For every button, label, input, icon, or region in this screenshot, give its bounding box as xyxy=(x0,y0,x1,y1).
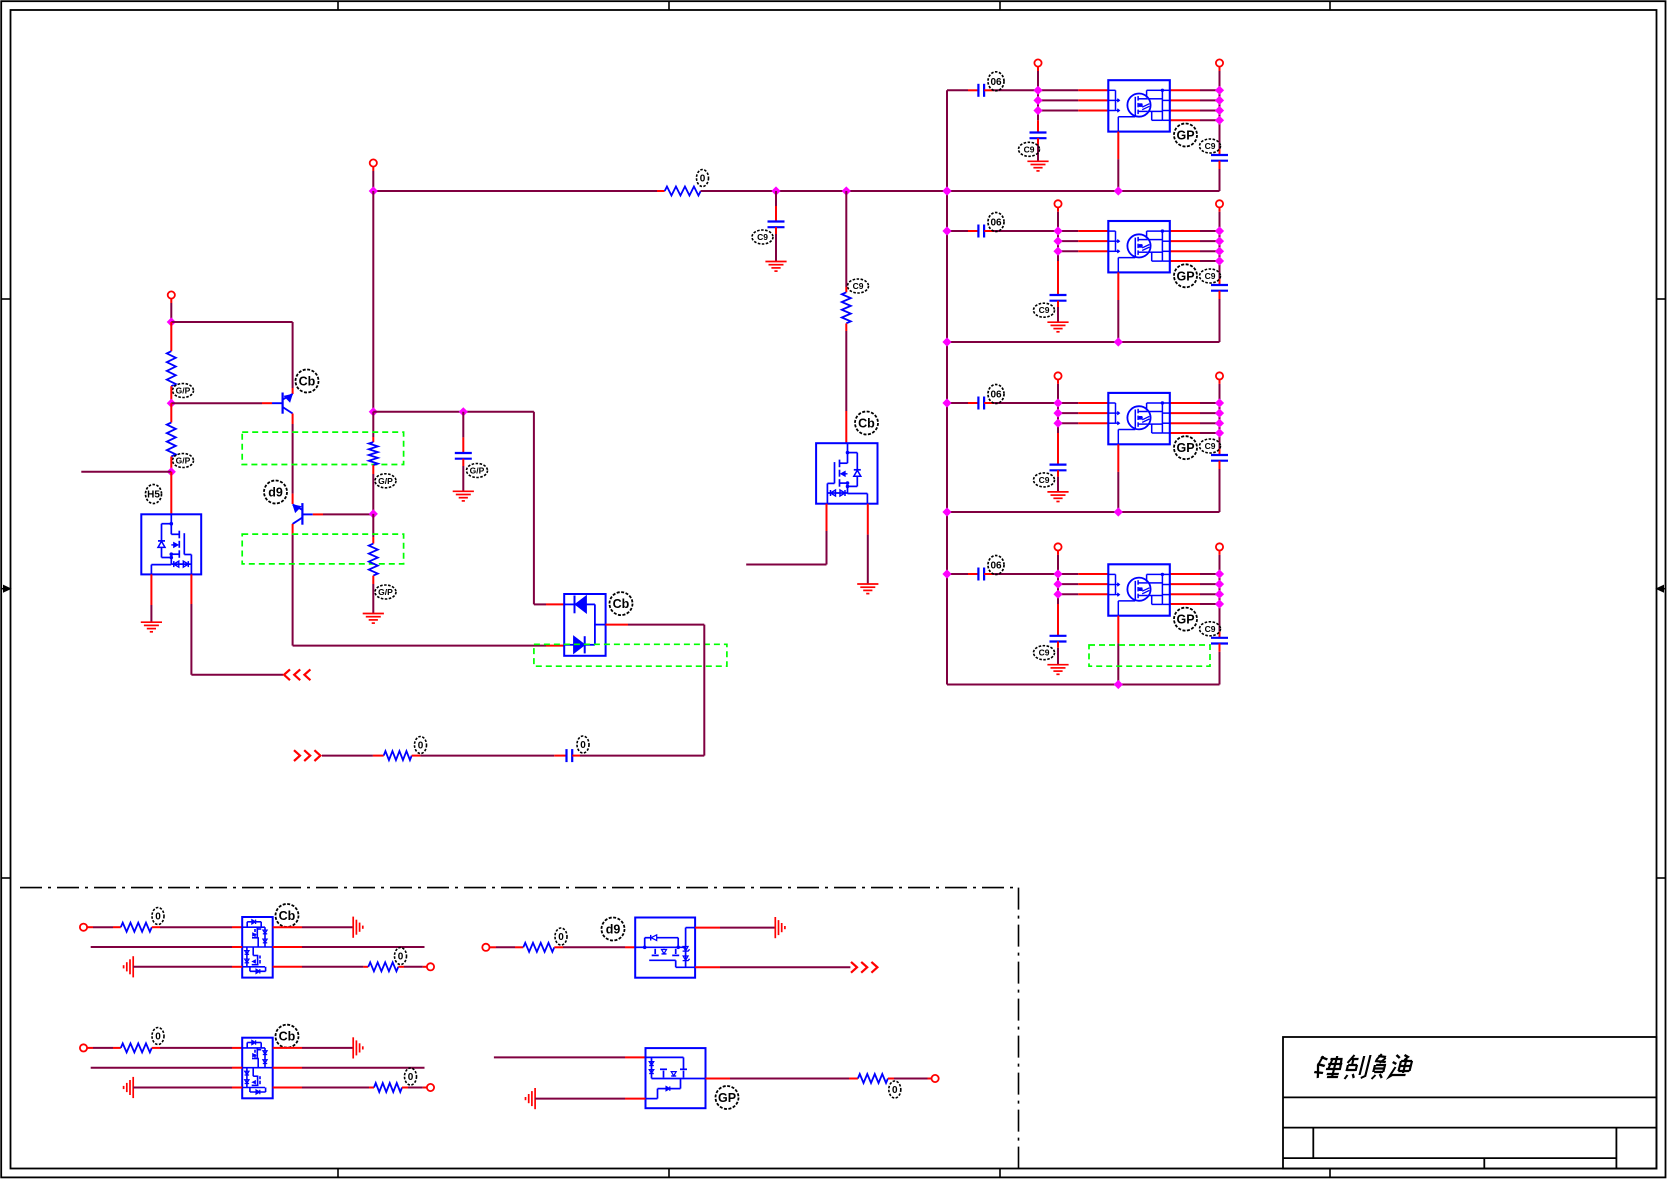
phase 2 wire box-to-right row4 xyxy=(1170,260,1200,262)
transistor Q2 (PNP mirrored) xyxy=(293,503,313,525)
block A input stub xyxy=(87,926,93,928)
phase 4 wire box-to-right row4 xyxy=(1170,603,1200,605)
wire R7 to mid MOSFET pack xyxy=(845,331,847,411)
phase 3 bottom bus wire xyxy=(947,511,1220,513)
svg-text:06: 06 xyxy=(990,77,1002,88)
svg-text:G/P: G/P xyxy=(378,476,393,486)
resistor R5 stub left xyxy=(373,755,384,757)
resistor R7 tap wire xyxy=(845,191,847,287)
phase 3 right junction row4 xyxy=(1215,428,1224,437)
phase 4 right junction row2 xyxy=(1215,580,1224,589)
phase 3 wire box-to-right row2 xyxy=(1170,412,1200,414)
phase 4 ground xyxy=(1047,664,1068,666)
feed terminal stub xyxy=(372,167,374,171)
power MOSFET pack Q1 (top-right block 1) xyxy=(1108,80,1170,131)
svg-text:GP: GP xyxy=(718,1091,736,1105)
block C resistor R13 label xyxy=(152,1028,164,1045)
phase 4 bypass capacitor C4b xyxy=(1050,635,1067,637)
wire top-left horizontal xyxy=(171,321,292,323)
block C resistor R14 stub xyxy=(369,1087,374,1089)
phase 3 wire col-to-box row1 xyxy=(1058,402,1078,404)
svg-text:06: 06 xyxy=(990,390,1002,401)
svg-text:C9: C9 xyxy=(1205,141,1216,151)
block D row3 wire xyxy=(535,1098,625,1100)
block D pack label GP xyxy=(716,1086,739,1109)
Q1 collector wire xyxy=(292,414,294,425)
resistor R3 bottom wire xyxy=(372,465,374,474)
Q5 source stub wire left xyxy=(746,564,826,566)
block C MOSFET pack Q13 (Cb) xyxy=(242,1038,273,1099)
svg-text:G/P: G/P xyxy=(176,386,191,396)
resistor R7 stub bottom xyxy=(845,323,847,331)
block D output wire xyxy=(706,1078,731,1080)
resistor R4 bottom wire xyxy=(372,576,374,584)
H5 drain pin wire xyxy=(170,472,172,515)
block A resistor R11 stub xyxy=(113,926,121,928)
junction at R7 tap xyxy=(842,186,851,195)
wire Q1 emitter drop xyxy=(292,322,294,388)
resistor R7 stub top xyxy=(845,287,847,292)
title block row line 2 xyxy=(1283,1127,1656,1129)
block A MOSFET pack Q11 (Cb) xyxy=(242,917,273,978)
Q6 gate wire horizontal xyxy=(191,674,283,676)
block C ground left xyxy=(132,1077,134,1098)
phase 1 ground xyxy=(1027,160,1048,162)
phase 2 terminal stub wire xyxy=(1057,207,1059,211)
phase 3 ground label xyxy=(1034,473,1055,487)
Q2 base wire xyxy=(313,513,323,515)
phase 1 column junction row2 xyxy=(1033,96,1042,105)
block C row1 output wire xyxy=(273,1047,302,1049)
junction C4 tap xyxy=(459,407,468,416)
phase 1 terminal stub wire xyxy=(1037,67,1039,71)
phase 2 series capacitor C2a wire right xyxy=(984,230,993,232)
phase 1 right junction row1 xyxy=(1215,86,1224,95)
mid column wire to R4 xyxy=(372,514,374,537)
block B resistor R15 stub xyxy=(515,946,523,948)
block C resistor R13 xyxy=(121,1043,152,1052)
phase 2 bottom bus wire xyxy=(947,341,1220,343)
svg-text:H5: H5 xyxy=(147,490,160,501)
capacitor C7 bottom wire xyxy=(775,227,777,234)
input terminal J6 xyxy=(168,291,175,298)
svg-text:Cb: Cb xyxy=(279,1030,296,1044)
resistor R3 label xyxy=(375,474,396,488)
wire down to diode pack anode xyxy=(533,412,535,605)
title block vertical divider C xyxy=(1483,1158,1485,1169)
junction at C7 tap xyxy=(771,186,780,195)
phase 2 right junction row1 xyxy=(1215,226,1224,235)
power MOSFET pack Q2 (top-right block 2) xyxy=(1108,221,1170,272)
wire right-column xyxy=(1219,67,1221,149)
phase 2 right junction row3 xyxy=(1215,247,1224,256)
block B resistor R15 label xyxy=(555,928,567,945)
phase 1 bypass cap bottom wire xyxy=(1037,138,1039,144)
Q6 gate pin wire xyxy=(190,574,192,604)
ground at Q5 xyxy=(857,583,878,585)
company logo text xyxy=(1313,1054,1414,1079)
phase 2 column junction row3 xyxy=(1053,247,1062,256)
capacitor C4 xyxy=(455,452,472,454)
block B ground right xyxy=(774,917,776,938)
junction mid column top xyxy=(369,407,378,416)
phase 3 input terminal J3a xyxy=(1054,372,1061,379)
svg-text:C9: C9 xyxy=(1024,144,1035,154)
phase 3 wire box-to-right row1 xyxy=(1170,402,1200,404)
phase 4 MOSFET source pin wire xyxy=(1117,616,1119,644)
phase 3 output terminal J3b xyxy=(1216,372,1223,379)
phase 3 bypass capacitor C3b xyxy=(1050,464,1067,466)
svg-text:0: 0 xyxy=(558,932,564,943)
phase 1 ground label xyxy=(1019,142,1040,156)
block C resistor R13 stub xyxy=(113,1047,121,1049)
phase 1 output cap label xyxy=(1200,139,1221,153)
dual diode pack D1 (Cb) xyxy=(564,594,605,656)
Q5 gate-return pin wire xyxy=(867,504,869,535)
phase 3 wire col-to-box row2 xyxy=(1058,412,1078,414)
phase 4 wire col-to-box row2 xyxy=(1058,583,1078,585)
block B MOSFET pack Q15 (d9) xyxy=(635,918,695,978)
block A output terminal xyxy=(427,963,434,970)
block C row2 wire left xyxy=(91,1067,232,1069)
block A wire R11 to pack xyxy=(152,926,160,928)
Q6 source pin wire xyxy=(150,574,152,605)
phase 1 bus junction at source xyxy=(1114,186,1123,195)
phase 4 right terminal stub xyxy=(1219,551,1221,555)
block B pack label d9 xyxy=(602,918,625,941)
left input stub wire xyxy=(81,471,171,473)
svg-text:GP: GP xyxy=(1176,441,1194,455)
block A input terminal xyxy=(80,924,87,931)
svg-text:GP: GP xyxy=(1176,269,1194,283)
capacitor C5 stub left xyxy=(554,755,566,757)
capacitor C7 xyxy=(768,220,785,222)
phase 2 output cap bottom wire xyxy=(1219,291,1221,299)
phase 2 ground label xyxy=(1034,303,1055,317)
block A row1 output wire xyxy=(273,926,302,928)
svg-text:C9: C9 xyxy=(853,281,864,291)
ground at R4 xyxy=(363,613,384,615)
phase 2 MOSFET pack label GP xyxy=(1174,264,1197,287)
block A resistor R11 xyxy=(121,923,152,932)
phase 3 right column wire xyxy=(1219,384,1221,449)
phase 4 right junction row1 xyxy=(1215,569,1224,578)
block D row1 input wire xyxy=(494,1056,625,1058)
phase 4 column junction row2 xyxy=(1053,580,1062,589)
phase 4 series capacitor C4a wire left xyxy=(947,573,968,575)
block A row2 wire right xyxy=(273,946,302,948)
resistor R4 label xyxy=(375,585,396,599)
phase 4 output terminal J4b xyxy=(1216,543,1223,550)
phase 4 bus junction at source xyxy=(1114,680,1123,689)
block A ground left xyxy=(132,956,134,977)
section dash-dot boundary vertical xyxy=(1018,888,1020,1169)
svg-text:G/P: G/P xyxy=(176,456,191,466)
capacitor C4 bottom wire xyxy=(462,459,464,466)
svg-text:0: 0 xyxy=(408,1072,414,1083)
phase 3 bus junction at source xyxy=(1114,507,1123,516)
capacitor C5 label xyxy=(577,736,589,753)
phase 1 right junction row2 xyxy=(1215,96,1224,105)
phase 2 right junction row4 xyxy=(1215,256,1224,265)
resistor R1 xyxy=(167,351,176,386)
resistor R7 label xyxy=(848,279,869,293)
return wire left segment xyxy=(322,755,373,757)
phase 1 series capacitor C1a wire left xyxy=(947,89,968,91)
phase 4 output capacitor C4c xyxy=(1211,637,1228,639)
phase 4 bottom bus wire xyxy=(947,684,1220,686)
phase 3 wire col-to-box row3 xyxy=(1058,422,1078,424)
svg-text:GP: GP xyxy=(1176,129,1194,143)
phase 4 terminal stub wire xyxy=(1057,551,1059,555)
phase 1 right terminal stub xyxy=(1219,67,1221,71)
capacitor C7 tap wire xyxy=(775,191,777,206)
phase 2 column junction row2 xyxy=(1053,237,1062,246)
phase 4 right junction row4 xyxy=(1215,599,1224,608)
junction top-left xyxy=(167,317,176,326)
svg-text:C9: C9 xyxy=(1205,271,1216,281)
junction R2-H5 xyxy=(167,467,176,476)
phase 3 terminal stub wire xyxy=(1057,380,1059,384)
phase 4 wire col-to-box row3 xyxy=(1058,593,1078,595)
title block vertical divider A xyxy=(1312,1128,1314,1159)
phase 3 series capacitor C3a wire right xyxy=(984,402,993,404)
phase 3 right junction row1 xyxy=(1215,398,1224,407)
block C input stub xyxy=(87,1047,93,1049)
phase 1 left bus junction (bus row) xyxy=(942,186,951,195)
phase 3 capacitor label xyxy=(988,385,1004,404)
block B input stub xyxy=(490,946,497,948)
Q2 emitter stub xyxy=(292,494,294,504)
phase 3 right junction row3 xyxy=(1215,419,1224,428)
phase 1 right junction row3 xyxy=(1215,106,1224,115)
phase 4 gate column wire xyxy=(1057,574,1059,604)
resistor R4 xyxy=(369,544,378,576)
resistor R2 xyxy=(167,423,176,457)
phase 2 wire col-to-box row3 xyxy=(1058,250,1078,252)
phase 1 output terminal J1b xyxy=(1216,59,1223,66)
block D MOSFET pack Q16 (GP) xyxy=(646,1048,706,1108)
svg-text:C9: C9 xyxy=(1039,648,1050,658)
block C row2 wire right xyxy=(273,1067,302,1069)
Q2 label d9 xyxy=(264,481,287,504)
phase 1 capacitor label xyxy=(988,72,1004,91)
phase 3 output cap bottom wire xyxy=(1219,461,1221,469)
mid MOSFET pack gate pin wire xyxy=(845,411,847,443)
phase 2 wire col-to-box row1 xyxy=(1058,230,1078,232)
phase 3 right junction row2 xyxy=(1215,409,1224,418)
resistor R2 label xyxy=(173,454,194,468)
svg-text:06: 06 xyxy=(990,561,1002,572)
phase 2 right terminal stub xyxy=(1219,207,1221,211)
resistor R5 stub right xyxy=(412,755,421,757)
mid column wire upper xyxy=(372,191,374,412)
phase 2 series capacitor C2a xyxy=(977,225,979,238)
block D resistor R16 stub xyxy=(849,1078,858,1080)
phase 4 column junction row1 xyxy=(1053,569,1062,578)
top border zone ticks xyxy=(337,1,339,10)
section dash-dot boundary horizontal xyxy=(20,887,1019,889)
green DNP box near phase 4 xyxy=(1089,645,1210,666)
phase 3 column junction row3 xyxy=(1053,419,1062,428)
phase 2 right column wire xyxy=(1219,212,1221,279)
branch wire at top of mid column xyxy=(373,411,534,413)
svg-text:Cb: Cb xyxy=(858,417,875,431)
capacitor C4 label xyxy=(467,464,488,478)
phase 1 right column wire xyxy=(1219,71,1221,149)
title block row line 1 xyxy=(1283,1096,1656,1098)
block C output wire xyxy=(402,1087,408,1089)
phase 2 bypass cap bottom wire xyxy=(1057,301,1059,307)
block B off-page connector right xyxy=(851,962,857,973)
block C row3 wire left xyxy=(133,1087,232,1089)
block C pack label Cb xyxy=(276,1025,299,1048)
resistor R6 label xyxy=(697,170,709,187)
block A output wire xyxy=(398,966,404,968)
phase 1 wire col-to-box row2 xyxy=(1038,99,1078,101)
phase 2 column junction row1 xyxy=(1053,226,1062,235)
mid MOSFET pack label Cb xyxy=(855,412,878,435)
svg-text:d9: d9 xyxy=(268,486,283,500)
block B row2 output wire xyxy=(695,966,720,968)
phase 1 series capacitor C1a xyxy=(977,84,979,97)
title block row line 3 xyxy=(1283,1157,1616,1159)
capacitor C4 tap wire xyxy=(462,412,464,438)
svg-text:G/P: G/P xyxy=(470,466,485,476)
svg-text:0: 0 xyxy=(398,952,404,963)
resistor R1 label xyxy=(173,384,194,398)
block C input terminal xyxy=(80,1044,87,1051)
block A resistor R11 label xyxy=(152,908,164,925)
diode pack output wire xyxy=(606,624,628,626)
net VCC left bus wire xyxy=(946,90,948,684)
block A ground right xyxy=(352,917,354,938)
phase 1 wire col-to-box row1 xyxy=(1038,89,1078,91)
phase 2 series capacitor C2a wire left xyxy=(947,230,968,232)
phase 1 bottom bus wire xyxy=(947,190,1220,192)
phase 4 ground label xyxy=(1034,646,1055,660)
block C ground right xyxy=(352,1037,354,1058)
phase 2 output cap label xyxy=(1200,269,1221,283)
resistor R1 wire xyxy=(170,322,172,351)
phase 1 gate column wire xyxy=(1037,90,1039,120)
resistor R7 xyxy=(842,292,851,323)
block D resistor R16 xyxy=(858,1074,888,1083)
phase 2 input terminal J2a xyxy=(1054,200,1061,207)
junction feed meets right bus xyxy=(942,186,951,195)
ground at Q6 xyxy=(141,621,162,623)
left border zone ticks xyxy=(1,298,10,300)
block B resistor R15 xyxy=(523,943,554,952)
phase 1 series capacitor C1a wire right xyxy=(984,89,993,91)
resistor R2 bottom wire xyxy=(170,457,172,472)
block C output terminal xyxy=(427,1084,434,1091)
svg-text:Cb: Cb xyxy=(613,597,630,611)
bottom border zone ticks xyxy=(337,1169,339,1178)
Q1 base wire xyxy=(171,402,262,404)
phase 4 MOSFET pack label GP xyxy=(1174,608,1197,631)
svg-text:C9: C9 xyxy=(757,232,768,242)
title block vertical divider B xyxy=(1615,1128,1617,1169)
phase 2 bypass capacitor C2b xyxy=(1050,294,1067,296)
mid column wire to R3 xyxy=(372,412,374,437)
Q1 label Cb xyxy=(296,370,319,393)
phase 1 output capacitor C1c xyxy=(1211,154,1228,156)
svg-text:0: 0 xyxy=(155,1032,161,1043)
resistor R6 xyxy=(665,187,701,196)
phase 2 bus junction at source xyxy=(1114,337,1123,346)
phase 1 wire box-to-right row1 xyxy=(1170,89,1200,91)
phase 3 right terminal stub xyxy=(1219,380,1221,384)
block C resistor R14 xyxy=(374,1083,402,1092)
resistor R5 xyxy=(384,751,412,760)
svg-text:0: 0 xyxy=(580,740,586,751)
phase 4 right junction row3 xyxy=(1215,590,1224,599)
block A pack label Cb xyxy=(276,904,299,927)
phase 3 column junction row1 xyxy=(1053,398,1062,407)
block B input terminal xyxy=(482,944,489,951)
green DNP box 3 xyxy=(534,644,727,666)
svg-text:0: 0 xyxy=(700,174,706,185)
phase 3 series capacitor C3a xyxy=(977,397,979,410)
power MOSFET pack Q4 (top-right block 4) xyxy=(1108,564,1170,615)
phase 2 wire col-to-box row2 xyxy=(1058,240,1078,242)
phase 3 wire box-to-right row3 xyxy=(1170,422,1200,424)
capacitor C5 stub right xyxy=(572,755,580,757)
right border zone ticks xyxy=(1657,298,1666,300)
phase 3 MOSFET pack label GP xyxy=(1174,436,1197,459)
J6 stub wire xyxy=(170,299,172,303)
phase 2 left bus junction (bus row) xyxy=(942,337,951,346)
svg-text:C9: C9 xyxy=(1205,624,1216,634)
feed wire horizontal xyxy=(373,190,657,192)
resistor R1 bottom wire xyxy=(170,386,172,403)
resistor R6 stub right xyxy=(701,190,710,192)
return wire right segment xyxy=(580,755,704,757)
phase 4 series capacitor C4a wire right xyxy=(984,573,993,575)
transistor Q1 (PNP) xyxy=(272,393,293,414)
phase 4 wire box-to-right row3 xyxy=(1170,593,1200,595)
block D output wire right xyxy=(888,1078,894,1080)
Q5 source pin wire xyxy=(826,504,828,531)
phase 4 input terminal J4a xyxy=(1054,543,1061,550)
left border midpoint arrow xyxy=(1,588,6,590)
block B wire R15 to pack xyxy=(554,946,563,948)
resistor R5 label xyxy=(415,737,427,754)
power MOSFET pack Q3 (top-right block 3) xyxy=(1108,393,1170,444)
phase 2 capacitor label xyxy=(988,213,1004,232)
phase 3 gate column wire xyxy=(1057,403,1059,433)
svg-text:C9: C9 xyxy=(1039,305,1050,315)
phase 1 input terminal J1a xyxy=(1034,59,1041,66)
phase 4 output cap label xyxy=(1200,622,1221,636)
resistor R2 wire top xyxy=(170,403,172,422)
phase 4 wire box-to-right row2 xyxy=(1170,583,1200,585)
ground at C7 xyxy=(765,261,786,263)
title block frame xyxy=(1283,1037,1656,1169)
phase 4 left bus junction (cap row) xyxy=(942,569,951,578)
block C row3 wire right xyxy=(273,1087,302,1089)
block A row3 wire left xyxy=(133,966,232,968)
resistor R3 xyxy=(369,442,378,465)
block A resistor R12 stub xyxy=(363,966,368,968)
phase 2 wire box-to-right row3 xyxy=(1170,250,1200,252)
phase 3 column junction row2 xyxy=(1053,409,1062,418)
off-page connector right (return) xyxy=(294,750,300,761)
H5 pack label xyxy=(146,485,162,504)
block C resistor R14 label xyxy=(405,1068,417,1085)
phase 1 wire col-to-box row3 xyxy=(1038,110,1078,112)
